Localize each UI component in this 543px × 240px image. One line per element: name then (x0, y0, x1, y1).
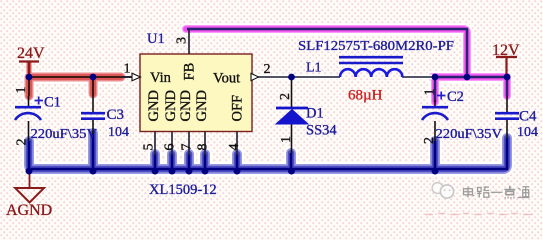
junction 12V/C4 (504, 74, 511, 81)
svg-text:2: 2 (264, 62, 271, 77)
power symbol 24V (17, 45, 45, 75)
svg-text:220uF\35V: 220uF\35V (31, 127, 98, 142)
svg-text:GND: GND (146, 90, 162, 121)
pins 5,6,7,8,4 stubs of U1 (155, 132, 237, 157)
svg-text:220uF\35V: 220uF\35V (436, 127, 503, 142)
svg-text:GND: GND (163, 90, 179, 121)
svg-text:1: 1 (14, 87, 29, 94)
pin 2 stub of U1 (arrow) (251, 73, 259, 80)
ic U1 XL1509-12 (140, 54, 252, 132)
svg-text:1: 1 (124, 62, 131, 77)
watermark text 电路一点通 (464, 186, 530, 198)
svg-text:AGND: AGND (6, 202, 52, 216)
wire 12V/FB net highlighted magenta (186, 29, 507, 102)
svg-text:5: 5 (142, 144, 157, 151)
capacitor C3 (104) (81, 96, 105, 134)
wire 24V net highlighted red (C1 top to U1 pin1) (29, 77, 133, 97)
svg-text:SLF12575T-680M2R0-PF: SLF12575T-680M2R0-PF (298, 39, 454, 54)
svg-text:Vin: Vin (150, 70, 172, 86)
inductor L1 (339, 57, 403, 77)
svg-text:68µH: 68µH (348, 88, 383, 104)
svg-text:D1: D1 (306, 106, 324, 122)
svg-text:12V: 12V (492, 42, 520, 59)
power symbol 12V (492, 42, 520, 75)
svg-text:2: 2 (422, 137, 437, 144)
junction pin7 (186, 168, 193, 175)
junction pin5 (152, 168, 159, 175)
svg-text:OFF: OFF (230, 95, 246, 122)
pin 1 stub of U1 (121, 73, 141, 81)
junction C3 bottom (90, 168, 97, 175)
svg-text:2: 2 (15, 139, 30, 146)
junction C2 bottom (432, 168, 439, 175)
svg-text:104: 104 (108, 125, 129, 140)
svg-text:FB: FB (182, 63, 198, 81)
svg-text:6: 6 (163, 144, 178, 151)
svg-text:24V: 24V (17, 45, 45, 62)
junction AGND/C1 bottom (26, 168, 33, 175)
capacitor C1 (polarized 220uF/35V) (15, 96, 43, 141)
svg-text:C1: C1 (44, 95, 61, 111)
ground symbol AGND (6, 173, 52, 219)
svg-text:Vout: Vout (213, 71, 240, 87)
capacitor C4 (104) (495, 96, 519, 139)
junction pin4 (234, 168, 241, 175)
junction C2 top (432, 74, 439, 81)
junction D1 bottom (288, 168, 295, 175)
svg-text:C4: C4 (519, 109, 537, 125)
junction FB drop (464, 74, 471, 81)
junction pin8 (202, 168, 209, 175)
svg-text:C2: C2 (447, 89, 464, 105)
wire AGND net highlighted blue (bottom rail) (29, 133, 507, 169)
junction D1 top (288, 74, 295, 81)
svg-text:4: 4 (227, 144, 242, 151)
svg-text:GND: GND (194, 90, 210, 121)
pin 3 stub of U1 (188, 30, 190, 54)
wire U1 pin2 to D1 to L1 (thin) (257, 75, 340, 80)
svg-text:C3: C3 (107, 107, 125, 123)
svg-text:2: 2 (278, 93, 293, 100)
svg-text:SS34: SS34 (306, 123, 337, 139)
bottom edge faint red watermark remnants (425, 214, 532, 215)
svg-text:7: 7 (180, 144, 195, 151)
wire L1 right to 12V junction (thin) (402, 75, 433, 80)
svg-text:1: 1 (279, 136, 294, 143)
svg-text:U1: U1 (147, 31, 165, 47)
svg-text:L1: L1 (306, 61, 322, 76)
svg-text:8: 8 (196, 144, 211, 151)
capacitor C2 (polarized 220uF/35V) (422, 92, 448, 142)
svg-text:104: 104 (517, 125, 538, 140)
junction 24V/C1 (26, 74, 33, 81)
svg-text:1: 1 (423, 89, 438, 96)
svg-text:GND: GND (178, 90, 194, 121)
svg-text:XL1509-12: XL1509-12 (149, 182, 217, 198)
junction C3 top (90, 74, 97, 81)
watermark logo (432, 183, 454, 198)
diode D1 SS34 (276, 77, 308, 154)
junction pin6 (169, 168, 176, 175)
svg-text:3: 3 (175, 37, 190, 44)
